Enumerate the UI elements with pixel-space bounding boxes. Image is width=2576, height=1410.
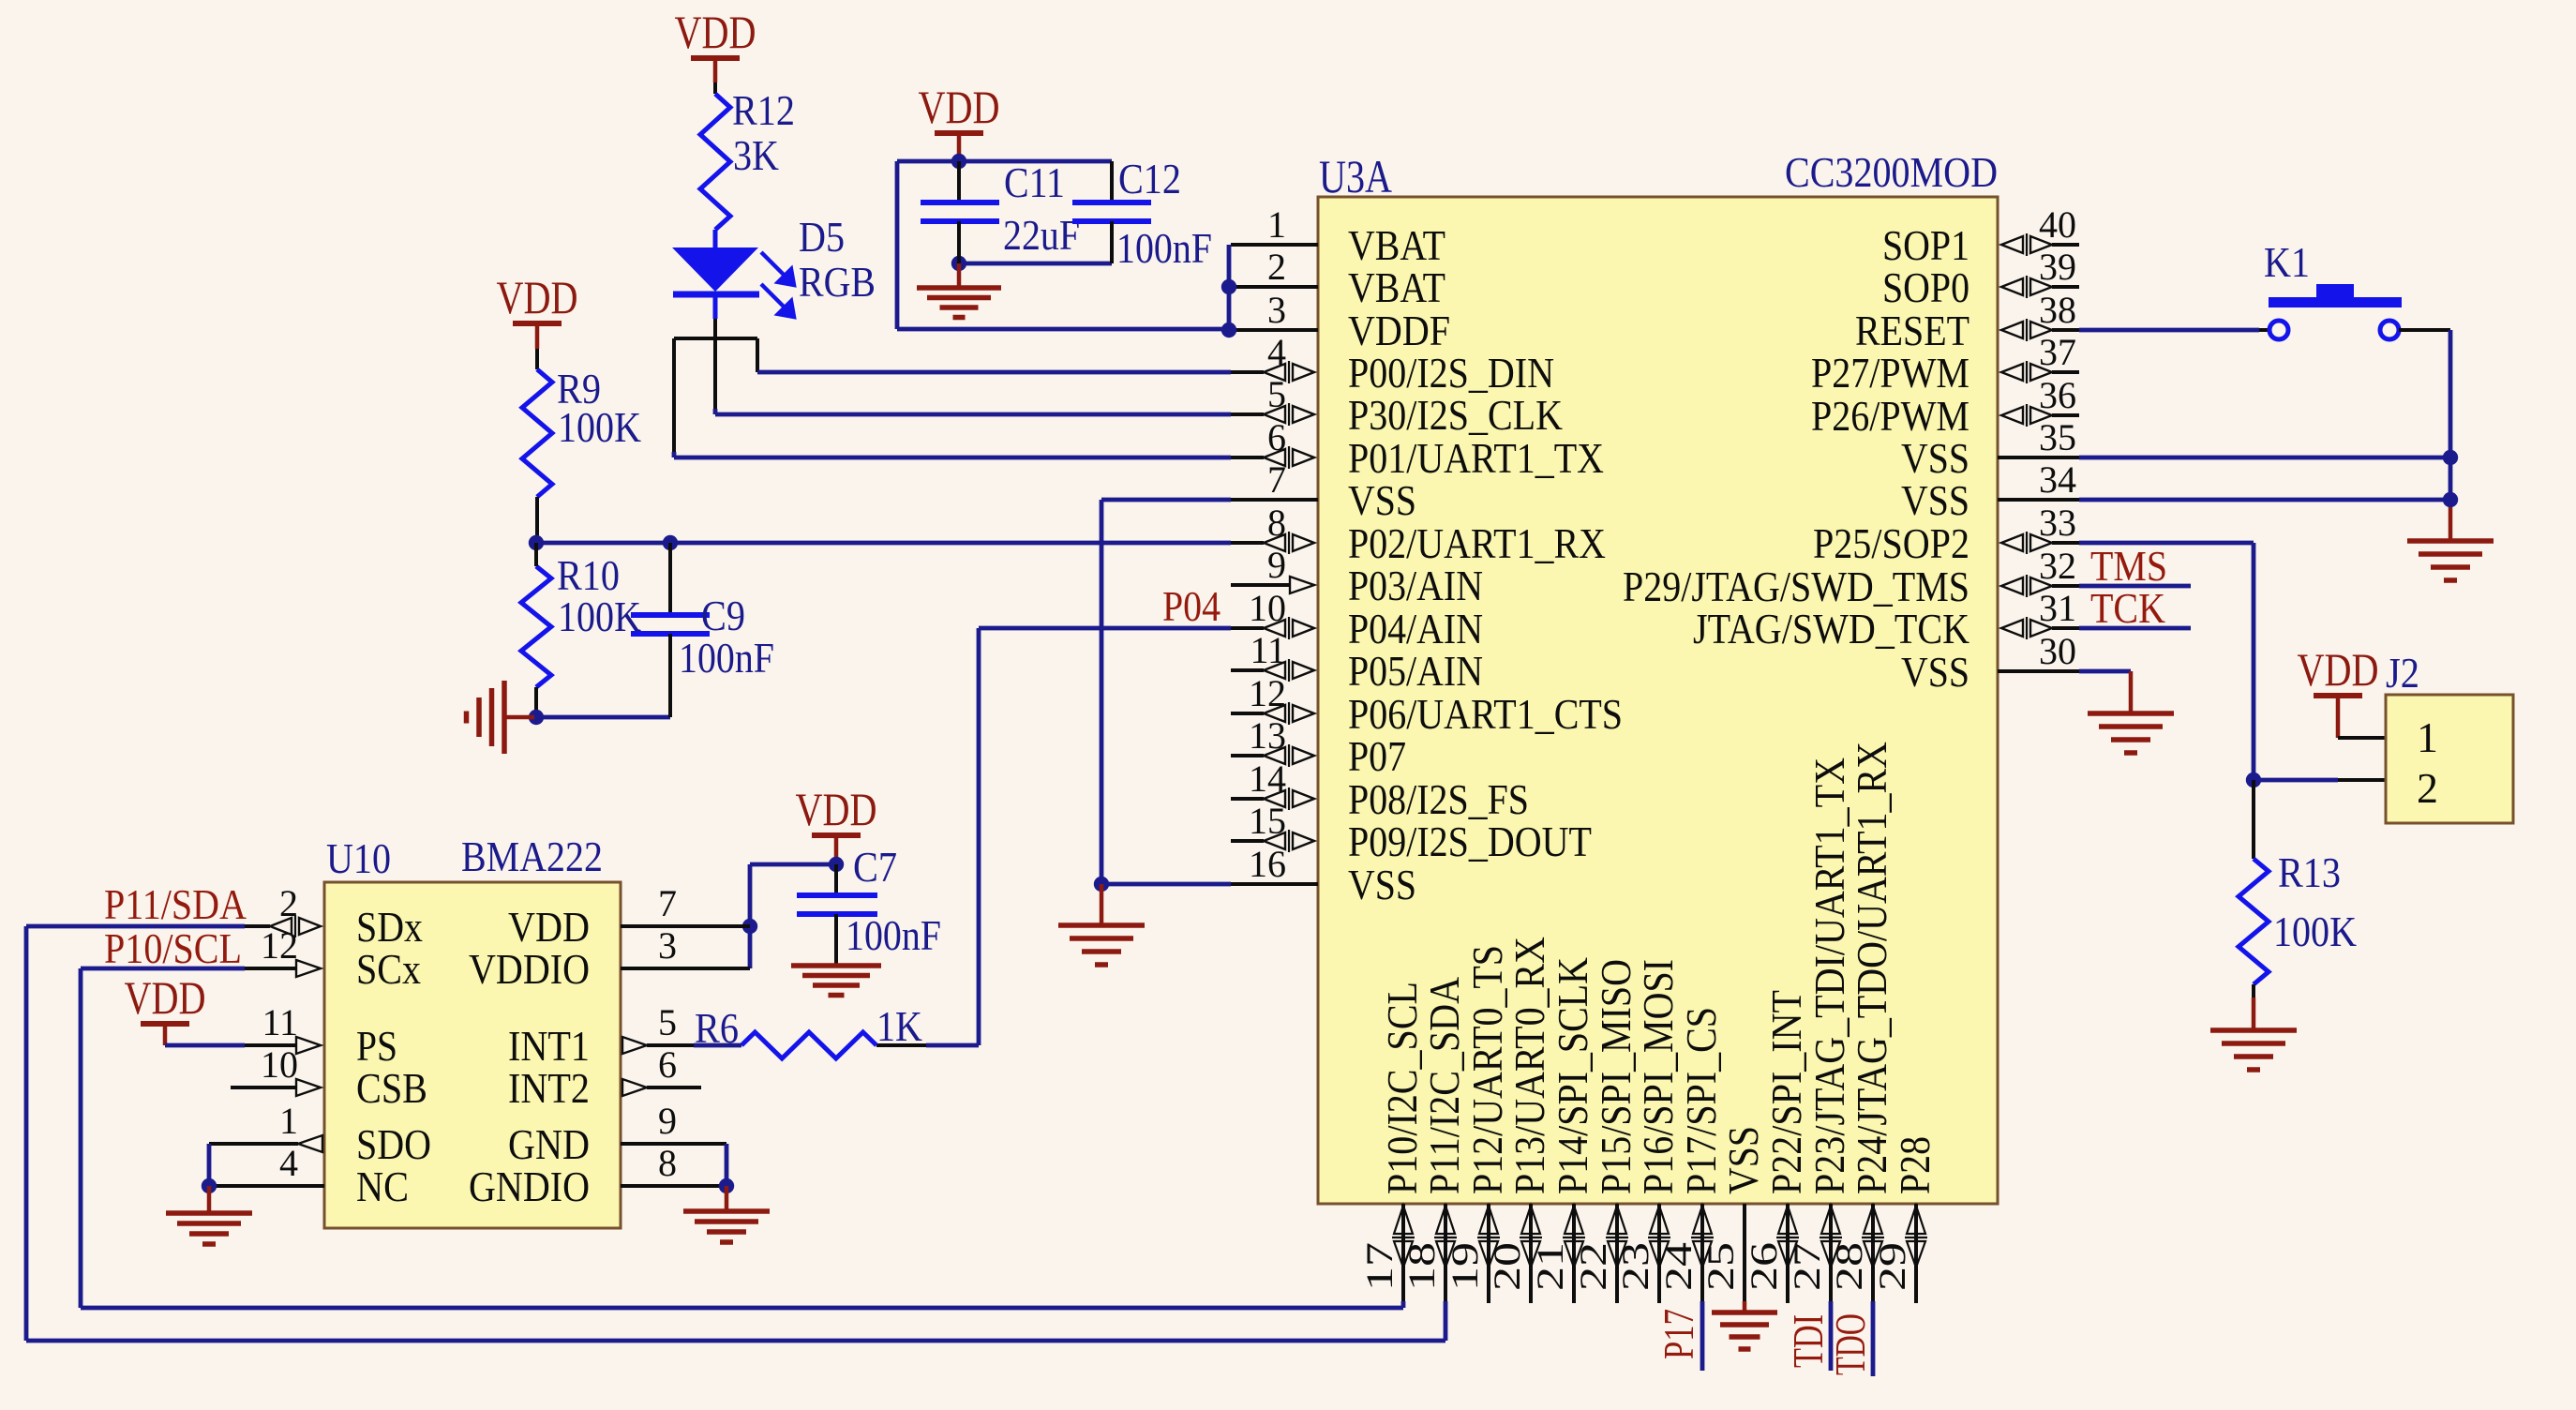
U3A pin 6 P01/UART1_TX (left) bbox=[1231, 416, 1604, 482]
svg-text:R13: R13 bbox=[2278, 848, 2341, 896]
wire P30/I2S_CLK net bbox=[715, 412, 1231, 417]
svg-text:14: 14 bbox=[1249, 757, 1286, 800]
label R6 bbox=[695, 1004, 739, 1052]
svg-text:P00/I2S_DIN: P00/I2S_DIN bbox=[1348, 349, 1554, 397]
ground below pin30 bbox=[2088, 713, 2174, 753]
wire C7 node to U10 VDD elbow bbox=[750, 864, 836, 968]
svg-text:1: 1 bbox=[2417, 713, 2438, 761]
wire VSS pin35 net bbox=[2079, 456, 2450, 460]
svg-text:SDO: SDO bbox=[356, 1120, 431, 1168]
junction dot J2 pin2 node bbox=[2246, 772, 2261, 787]
svg-text:33: 33 bbox=[2039, 502, 2076, 544]
svg-text:TDO: TDO bbox=[1826, 1313, 1874, 1375]
svg-text:VDD: VDD bbox=[125, 971, 206, 1024]
wire P10/SCL to SCx bbox=[81, 967, 296, 971]
ground below pin25 bbox=[1712, 1312, 1777, 1349]
wire P25/SOP2 net to J2 bbox=[2079, 543, 2254, 780]
svg-text:P14/SPI_SCLK: P14/SPI_SCLK bbox=[1549, 957, 1596, 1194]
ground left of R10 (rotated) bbox=[467, 681, 535, 754]
svg-text:15: 15 bbox=[1249, 800, 1286, 842]
label J2 pin 1 bbox=[2417, 713, 2438, 761]
U10 pin 12 SCx (left) bbox=[261, 924, 421, 993]
IC U10 BMA222 body bbox=[324, 882, 621, 1228]
svg-text:5: 5 bbox=[658, 1001, 677, 1043]
ground below R13 bbox=[2210, 1030, 2297, 1070]
ground below SDO/NC bbox=[166, 1186, 252, 1244]
svg-text:11: 11 bbox=[1250, 629, 1286, 671]
ground below K1 rail bbox=[2407, 507, 2494, 580]
svg-text:VSS: VSS bbox=[1348, 476, 1416, 524]
U3A pin 19 P12/UART0_TS (bottom) bbox=[1444, 945, 1511, 1303]
svg-text:36: 36 bbox=[2039, 374, 2076, 416]
U3A pin 36 P26/PWM (right) bbox=[1811, 374, 2079, 440]
junction dot C9 top bbox=[663, 535, 678, 550]
svg-text:P03/AIN: P03/AIN bbox=[1348, 562, 1483, 609]
power VDD symbol above R9 bbox=[497, 271, 578, 326]
svg-text:VBAT: VBAT bbox=[1348, 221, 1445, 269]
wire TDI stub down bbox=[1829, 1301, 1834, 1371]
svg-text:CC3200MOD: CC3200MOD bbox=[1785, 148, 1998, 196]
svg-text:4: 4 bbox=[279, 1142, 298, 1184]
label D5 value RGB bbox=[799, 258, 876, 306]
wire bottom node to C9 bbox=[536, 715, 670, 720]
wire TDO stub down bbox=[1871, 1301, 1876, 1376]
U3A pin 14 P08/I2S_FS (left) bbox=[1231, 757, 1529, 823]
svg-text:100K: 100K bbox=[558, 403, 641, 451]
svg-text:P17/SPI_CS: P17/SPI_CS bbox=[1677, 1007, 1725, 1194]
label R13 bbox=[2278, 848, 2341, 896]
svg-text:P02/UART1_RX: P02/UART1_RX bbox=[1348, 519, 1606, 567]
label C12 value 100nF bbox=[1116, 224, 1212, 272]
svg-text:VDD: VDD bbox=[508, 903, 590, 951]
LED D5 light arrows bbox=[761, 252, 794, 317]
U3A pin 38 RESET (right) bbox=[1855, 289, 2079, 354]
label net TCK bbox=[2090, 584, 2165, 632]
label net TDI (rotated) bbox=[1784, 1314, 1832, 1368]
wire VDD stem to C11 rail bbox=[957, 136, 962, 161]
label D5 bbox=[799, 213, 845, 261]
svg-text:P12/UART0_TS: P12/UART0_TS bbox=[1463, 945, 1511, 1194]
wire P04 net horizontal bbox=[979, 626, 1231, 631]
U10 pin 6 INT2 (right) bbox=[508, 1043, 677, 1112]
svg-text:P26/PWM: P26/PWM bbox=[1811, 392, 1969, 440]
svg-text:TMS: TMS bbox=[2090, 542, 2167, 590]
svg-text:SDx: SDx bbox=[356, 903, 423, 951]
label C7 bbox=[853, 843, 897, 891]
svg-text:VBAT: VBAT bbox=[1348, 263, 1445, 311]
svg-text:22: 22 bbox=[1572, 1242, 1614, 1291]
wire TCK net bbox=[2079, 626, 2191, 631]
svg-text:11: 11 bbox=[262, 1001, 298, 1043]
svg-text:P25/SOP2: P25/SOP2 bbox=[1813, 519, 1969, 567]
U3A pin 28 P24/JTAG_TDO/UART1_RX (bottom) bbox=[1828, 742, 1895, 1303]
resistor R6 bbox=[741, 1032, 876, 1058]
wire R6 left segment to INT1 bbox=[647, 1043, 741, 1047]
wire P04 net vertical bbox=[977, 628, 981, 1045]
wire node to J2 pin2 bbox=[2254, 778, 2386, 783]
capacitor C9 bbox=[631, 543, 710, 717]
svg-text:P11/SDA: P11/SDA bbox=[104, 880, 247, 928]
svg-text:VSS: VSS bbox=[1901, 434, 1969, 482]
wire P00/I2S_DIN net bbox=[757, 370, 1231, 375]
U10 pin 11 PS (left) bbox=[262, 1001, 397, 1070]
svg-text:VDD: VDD bbox=[919, 81, 1000, 133]
wire GND pin9 to node bbox=[621, 1144, 726, 1186]
U3A pin 1 VBAT (left) bbox=[1231, 203, 1445, 269]
U3A pin 20 P13/UART0_RX (bottom) bbox=[1486, 937, 1553, 1303]
junction dot R9/R10 bbox=[529, 535, 544, 550]
svg-text:34: 34 bbox=[2039, 458, 2076, 501]
junction dot pin2 bbox=[1221, 279, 1236, 294]
svg-text:SCx: SCx bbox=[356, 945, 421, 993]
junction dot pin3 bbox=[1221, 322, 1236, 337]
svg-text:INT1: INT1 bbox=[508, 1022, 590, 1070]
wire D5 cathode node bbox=[713, 319, 717, 338]
svg-text:2: 2 bbox=[279, 882, 298, 924]
svg-text:CSB: CSB bbox=[356, 1064, 427, 1112]
svg-text:RGB: RGB bbox=[799, 258, 876, 306]
svg-text:P30/I2S_CLK: P30/I2S_CLK bbox=[1348, 391, 1563, 439]
U3A pin 23 P16/SPI_MOSI (bottom) bbox=[1614, 959, 1682, 1303]
svg-text:30: 30 bbox=[2039, 630, 2076, 672]
U3A pin 31 JTAG/SWD_TCK (right) bbox=[1693, 587, 2079, 652]
svg-text:100K: 100K bbox=[2273, 907, 2357, 955]
svg-text:RESET: RESET bbox=[1855, 307, 1969, 354]
U3A pin 39 SOP0 (right) bbox=[1882, 246, 2079, 311]
label net P11/SDA bbox=[104, 880, 247, 928]
capacitor C12 bbox=[1072, 161, 1151, 263]
label R10 value 100K bbox=[558, 592, 641, 640]
svg-text:D5: D5 bbox=[799, 213, 845, 261]
capacitor C7 bbox=[797, 864, 877, 964]
ground below GNDIO bbox=[683, 1186, 770, 1242]
wire junction to R10 bbox=[534, 543, 538, 566]
wire SDO to ground node bbox=[209, 1144, 298, 1186]
U3A pin 17 P10/I2C_SCL (bottom) bbox=[1358, 982, 1426, 1303]
svg-text:32: 32 bbox=[2039, 545, 2076, 587]
wire I2C SDA long net bbox=[26, 926, 1445, 1341]
U3A pin 25 VSS (bottom) bbox=[1700, 1126, 1767, 1301]
svg-text:VDD: VDD bbox=[2298, 643, 2379, 696]
svg-text:28: 28 bbox=[1828, 1242, 1870, 1291]
wire RESET net to K1 bbox=[2079, 328, 2269, 333]
junction dot SDO/NC bbox=[202, 1178, 217, 1193]
label C9 bbox=[701, 592, 745, 639]
svg-text:P24/JTAG_TDO/UART1_RX: P24/JTAG_TDO/UART1_RX bbox=[1848, 742, 1895, 1194]
svg-text:P23/JTAG_TDI/UART1_TX: P23/JTAG_TDI/UART1_TX bbox=[1805, 757, 1853, 1194]
wire P01/UART1_TX net bbox=[674, 456, 1231, 460]
wire VBAT/VDDF vertical link pins 1-3 bbox=[1227, 245, 1232, 330]
wire GNDIO pin8 to node bbox=[621, 1184, 726, 1188]
pushbutton K1 bbox=[2269, 284, 2402, 339]
svg-text:SOP0: SOP0 bbox=[1882, 263, 1969, 311]
U3A pin 9 P03/AIN (left) bbox=[1231, 544, 1483, 609]
svg-text:21: 21 bbox=[1529, 1242, 1571, 1291]
svg-text:2: 2 bbox=[1267, 246, 1286, 288]
wire D5 to pin4 elbow bbox=[715, 338, 757, 372]
svg-text:6: 6 bbox=[658, 1043, 677, 1086]
wire D5 to pin5 drop bbox=[713, 338, 717, 414]
U3A pin 13 P07 (left) bbox=[1231, 714, 1406, 780]
svg-text:19: 19 bbox=[1444, 1242, 1486, 1291]
svg-text:VSS: VSS bbox=[1901, 476, 1969, 524]
svg-text:38: 38 bbox=[2039, 289, 2076, 331]
svg-text:3K: 3K bbox=[733, 131, 779, 179]
wire R9 to junction bbox=[535, 497, 539, 543]
U3A pin 4 P00/I2S_DIN (left) bbox=[1231, 331, 1554, 397]
wire TMS net bbox=[2079, 584, 2191, 589]
label C12 bbox=[1118, 155, 1181, 202]
U10 pin 2 SDx (left) bbox=[270, 882, 423, 951]
svg-text:P22/SPI_INT: P22/SPI_INT bbox=[1762, 990, 1810, 1194]
U10 pin 5 INT1 (right) bbox=[508, 1001, 677, 1070]
svg-text:VDD: VDD bbox=[497, 271, 578, 323]
LED D5 anode stem bbox=[713, 230, 718, 247]
svg-text:P09/I2S_DOUT: P09/I2S_DOUT bbox=[1348, 817, 1592, 865]
svg-text:1: 1 bbox=[1267, 203, 1286, 246]
svg-text:100K: 100K bbox=[558, 592, 641, 640]
wire CSB stub bbox=[231, 1086, 296, 1089]
svg-text:P07: P07 bbox=[1348, 732, 1406, 780]
U3A pin 15 P09/I2S_DOUT (left) bbox=[1231, 800, 1592, 865]
U3A pin 35 VSS (right) bbox=[1901, 416, 2079, 482]
svg-text:P06/UART1_CTS: P06/UART1_CTS bbox=[1348, 690, 1623, 738]
svg-text:U10: U10 bbox=[326, 834, 391, 882]
svg-text:VDDIO: VDDIO bbox=[469, 945, 590, 993]
wire VDD to J2 pin1 bbox=[2338, 698, 2386, 738]
svg-text:JTAG/SWD_TCK: JTAG/SWD_TCK bbox=[1693, 605, 1969, 652]
label R9 value 100K bbox=[558, 403, 641, 451]
svg-text:12: 12 bbox=[1249, 672, 1286, 714]
label R12 value 3K bbox=[733, 131, 779, 179]
label K1 bbox=[2264, 238, 2310, 286]
svg-text:P15/SPI_MISO: P15/SPI_MISO bbox=[1592, 959, 1640, 1194]
svg-text:24: 24 bbox=[1657, 1242, 1700, 1291]
svg-text:10: 10 bbox=[1249, 587, 1286, 629]
power VDD symbol at J2 bbox=[2298, 643, 2379, 698]
wire R10 to bottom node bbox=[534, 687, 538, 717]
label R13 value 100K bbox=[2273, 907, 2357, 955]
U3A pin 2 VBAT (left) bbox=[1231, 246, 1445, 311]
svg-text:7: 7 bbox=[658, 882, 677, 924]
U3A pin 33 P25/SOP2 (right) bbox=[1813, 502, 2079, 567]
wire P17/SPI_CS stub down bbox=[1700, 1301, 1705, 1371]
wire node to R13 bbox=[2252, 780, 2255, 859]
svg-text:K1: K1 bbox=[2264, 238, 2310, 286]
svg-text:J2: J2 bbox=[2386, 649, 2419, 697]
power VDD symbol above C11 bbox=[919, 81, 1000, 136]
resistor R10 bbox=[521, 566, 551, 687]
junction dot R10 bottom bbox=[529, 710, 544, 725]
svg-text:8: 8 bbox=[1267, 502, 1286, 544]
svg-text:C7: C7 bbox=[853, 843, 897, 891]
label net P10/SCL bbox=[104, 924, 242, 972]
svg-text:P16/SPI_MOSI: P16/SPI_MOSI bbox=[1634, 959, 1682, 1194]
wire bottom rail to VDDF pin3 bbox=[897, 327, 1229, 332]
label C11 value 22uF bbox=[1003, 211, 1080, 259]
svg-text:VSS: VSS bbox=[1348, 861, 1416, 908]
svg-text:16: 16 bbox=[1249, 843, 1286, 885]
wire VDD stem to R12 bbox=[713, 61, 718, 94]
label BMA222 part name bbox=[461, 832, 603, 880]
label net P04 bbox=[1162, 582, 1221, 630]
junction dot C11 bottom bbox=[951, 256, 966, 271]
U3A pin 18 P11/I2C_SDA (bottom) bbox=[1400, 977, 1468, 1303]
wire VDD to PS bbox=[165, 1027, 296, 1045]
label U3A designator bbox=[1319, 150, 1392, 202]
svg-text:13: 13 bbox=[1249, 714, 1286, 757]
wire VDD stem to C7 bbox=[834, 838, 839, 864]
svg-text:NC: NC bbox=[356, 1162, 409, 1210]
wire VSS pin16 net bbox=[1101, 882, 1231, 887]
svg-text:20: 20 bbox=[1486, 1242, 1528, 1291]
svg-text:P10/I2C_SCL: P10/I2C_SCL bbox=[1378, 982, 1426, 1194]
wire VDD stem to R9 bbox=[535, 326, 540, 369]
label net TMS bbox=[2090, 542, 2167, 590]
U3A pin 34 VSS (right) bbox=[1901, 458, 2079, 524]
U3A pin 30 VSS (right) bbox=[1901, 630, 2079, 696]
wire left bypass vertical bbox=[895, 161, 900, 329]
svg-text:35: 35 bbox=[2039, 416, 2076, 458]
svg-text:4: 4 bbox=[1267, 331, 1286, 373]
label R6 value 1K bbox=[876, 1002, 922, 1050]
svg-text:VSS: VSS bbox=[1719, 1126, 1767, 1194]
IC U3A CC3200MOD body bbox=[1318, 197, 1998, 1204]
svg-text:INT2: INT2 bbox=[508, 1064, 590, 1112]
junction dot C11 top bbox=[951, 154, 966, 169]
svg-text:31: 31 bbox=[2039, 587, 2076, 629]
junction dot U10 VDD bbox=[742, 919, 757, 934]
label R9 bbox=[557, 365, 601, 412]
wire R13 to ground bbox=[2252, 984, 2255, 1030]
svg-text:SOP1: SOP1 bbox=[1882, 221, 1969, 269]
U3A pin 21 P14/SPI_SCLK (bottom) bbox=[1529, 957, 1596, 1303]
wire NC to ground node bbox=[209, 1184, 324, 1188]
U3A pin 12 P06/UART1_CTS (left) bbox=[1231, 672, 1623, 738]
junction dot VSS16 bbox=[1094, 877, 1109, 892]
svg-text:5: 5 bbox=[1267, 373, 1286, 415]
svg-text:P04: P04 bbox=[1162, 582, 1221, 630]
svg-text:9: 9 bbox=[1267, 544, 1286, 586]
svg-text:GNDIO: GNDIO bbox=[469, 1162, 590, 1210]
svg-text:U3A: U3A bbox=[1319, 150, 1392, 202]
U3A pin 8 P02/UART1_RX (left) bbox=[1231, 502, 1606, 567]
U3A pin 7 VSS (left) bbox=[1231, 458, 1416, 524]
label net P17 (rotated) bbox=[1655, 1309, 1702, 1359]
svg-text:23: 23 bbox=[1614, 1242, 1656, 1291]
wire I2C SCL long net bbox=[81, 968, 1403, 1308]
svg-text:P28: P28 bbox=[1891, 1136, 1939, 1194]
svg-text:C11: C11 bbox=[1004, 158, 1065, 206]
wire U10 VDDIO pin3 elbow bbox=[621, 967, 750, 970]
svg-text:GND: GND bbox=[508, 1120, 590, 1168]
svg-text:25: 25 bbox=[1700, 1242, 1742, 1291]
label CC3200MOD part name bbox=[1785, 148, 1998, 196]
svg-text:26: 26 bbox=[1743, 1242, 1785, 1291]
U3A pin 22 P15/SPI_MISO (bottom) bbox=[1572, 959, 1640, 1303]
svg-text:2: 2 bbox=[2417, 764, 2438, 812]
ground at VSS16 bbox=[1058, 884, 1145, 965]
U3A pin 3 VDDF (left) bbox=[1231, 289, 1450, 354]
power VDD symbol above R12 bbox=[675, 6, 756, 61]
wire U10 VDD pin7 to C7 node bbox=[621, 924, 750, 928]
LED D5 bbox=[672, 247, 759, 319]
svg-text:27: 27 bbox=[1786, 1242, 1828, 1291]
svg-text:12: 12 bbox=[261, 924, 298, 967]
svg-text:100nF: 100nF bbox=[679, 634, 774, 682]
power VDD symbol above C7 bbox=[796, 783, 877, 838]
svg-text:P11/I2C_SDA: P11/I2C_SDA bbox=[1420, 977, 1468, 1194]
svg-text:BMA222: BMA222 bbox=[461, 832, 603, 880]
wire C11/C12 top rail bbox=[897, 159, 1112, 164]
svg-text:1: 1 bbox=[279, 1100, 298, 1142]
capacitor C11 bbox=[921, 161, 999, 263]
svg-text:P29/JTAG/SWD_TMS: P29/JTAG/SWD_TMS bbox=[1623, 562, 1969, 610]
svg-text:1K: 1K bbox=[876, 1002, 922, 1050]
svg-text:VDD: VDD bbox=[675, 6, 756, 58]
label R12 bbox=[732, 86, 795, 134]
svg-text:8: 8 bbox=[658, 1142, 677, 1184]
junction dot GND/GNDIO bbox=[719, 1178, 734, 1193]
svg-text:R12: R12 bbox=[732, 86, 795, 134]
svg-text:VSS: VSS bbox=[1901, 648, 1969, 696]
svg-text:PS: PS bbox=[356, 1022, 397, 1070]
U3A pin 32 P29/JTAG/SWD_TMS (right) bbox=[1623, 545, 2079, 610]
svg-text:P04/AIN: P04/AIN bbox=[1348, 605, 1483, 652]
svg-text:P01/UART1_TX: P01/UART1_TX bbox=[1348, 434, 1604, 482]
U10 pin 3 VDDIO (right) bbox=[469, 924, 677, 993]
wire VSS pin34 net bbox=[2079, 498, 2450, 502]
U3A pin 5 P30/I2S_CLK (left) bbox=[1231, 373, 1563, 439]
label U10 designator bbox=[326, 834, 391, 882]
svg-text:17: 17 bbox=[1358, 1242, 1400, 1291]
svg-text:100nF: 100nF bbox=[846, 911, 941, 959]
U3A pin 11 P05/AIN (left) bbox=[1231, 629, 1483, 695]
svg-text:C9: C9 bbox=[701, 592, 745, 639]
U3A pin 24 P17/SPI_CS (bottom) bbox=[1657, 1007, 1725, 1303]
svg-text:P17: P17 bbox=[1655, 1309, 1702, 1359]
svg-text:P27/PWM: P27/PWM bbox=[1811, 349, 1969, 397]
wire VSS pin25 to ground bbox=[1743, 1301, 1747, 1312]
U3A pin 29 P28 (bottom) bbox=[1871, 1136, 1939, 1303]
U3A pin 26 P22/SPI_INT (bottom) bbox=[1743, 990, 1810, 1303]
wire P02/UART1_RX net bbox=[535, 541, 1231, 546]
svg-text:VDDF: VDDF bbox=[1348, 307, 1450, 354]
svg-text:3: 3 bbox=[1267, 289, 1286, 331]
U3A pin 16 VSS (left) bbox=[1231, 843, 1416, 908]
junction dot VSS34 bbox=[2443, 492, 2458, 507]
svg-text:9: 9 bbox=[658, 1100, 677, 1142]
power VDD symbol at U10 PS bbox=[125, 971, 206, 1027]
svg-text:39: 39 bbox=[2039, 246, 2076, 288]
U10 pin 1 SDO (left) bbox=[279, 1100, 431, 1168]
U10 pin 9 GND (right) bbox=[508, 1100, 677, 1168]
resistor R12 bbox=[700, 94, 730, 230]
label C11 bbox=[1004, 158, 1065, 206]
wire INT2 stub bbox=[647, 1086, 701, 1089]
svg-text:100nF: 100nF bbox=[1116, 224, 1212, 272]
wire VSS pin30 to ground bbox=[2079, 671, 2131, 713]
ground below C7 bbox=[791, 966, 881, 996]
U10 pin 8 GNDIO (right) bbox=[469, 1142, 677, 1210]
label C7 value 100nF bbox=[846, 911, 941, 959]
wire D5 to pin6 elbow bbox=[674, 338, 714, 457]
resistor R13 bbox=[2239, 859, 2269, 984]
label C9 value 100nF bbox=[679, 634, 774, 682]
svg-text:7: 7 bbox=[1267, 458, 1286, 501]
U3A pin 37 P27/PWM (right) bbox=[1811, 331, 2079, 397]
svg-text:3: 3 bbox=[658, 924, 677, 967]
